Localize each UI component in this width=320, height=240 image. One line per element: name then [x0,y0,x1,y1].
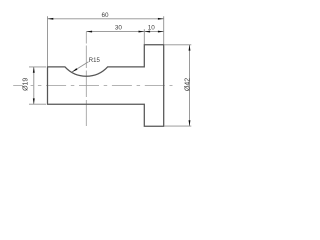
svg-text:Ø42: Ø42 [185,78,192,91]
part outline: shaft with R15 groove and flange [48,45,164,126]
leader R15 [72,62,89,72]
arrow Ø19 top [33,67,35,73]
arrow 60 right [158,18,164,20]
dimension line 30 [86,31,144,33]
arrow 30 right [139,31,145,33]
svg-text:30: 30 [115,25,123,32]
vertical centerline (arc axis / 30-dim extension) [85,32,87,126]
horizontal centerline [13,85,172,87]
svg-text:10: 10 [148,25,156,32]
extension line Ø42 bottom [165,125,192,127]
arrow 30 left [86,31,92,33]
extension line 60/42 right [163,16,165,44]
arrow 60 left [48,18,54,20]
leader arrow R15 [72,68,77,72]
arrow Ø42 bottom [189,120,191,126]
svg-text:R15: R15 [89,58,101,64]
arrow Ø19 bottom [33,98,35,104]
extension line Ø19 bottom [29,103,46,105]
extension line 60 left [47,16,49,66]
dimension line Ø42 [189,45,191,126]
extension line 30/10 at flange left edge [143,29,145,44]
text mask Ø19 [23,77,31,92]
dimension line Ø19 [33,67,35,104]
arrow 10 right [158,31,164,33]
dimension line 10 [144,31,163,33]
svg-text:Ø19: Ø19 [23,78,30,91]
dimension line 60 [48,18,164,20]
extension line Ø19 top [29,66,46,68]
extension line Ø42 top [165,44,192,46]
svg-text:60: 60 [101,12,109,19]
arrow Ø42 top [189,45,191,51]
arrow 10 left [144,31,150,33]
